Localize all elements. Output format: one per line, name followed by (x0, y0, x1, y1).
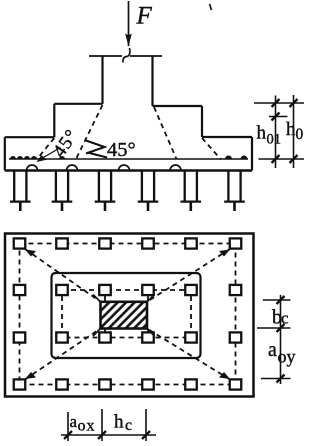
svg-text:a: a (268, 339, 277, 361)
svg-text:45°: 45° (107, 139, 136, 161)
svg-text:c: c (281, 309, 289, 328)
svg-text:c: c (125, 417, 132, 434)
svg-text:h: h (286, 119, 296, 140)
svg-text:oy: oy (278, 347, 296, 367)
svg-text:F: F (136, 3, 153, 30)
svg-text:a: a (70, 412, 78, 431)
svg-text:0: 0 (296, 126, 304, 143)
svg-text:h: h (257, 123, 267, 144)
svg-text:h: h (114, 412, 124, 433)
svg-text:01: 01 (267, 132, 282, 148)
svg-text:ox: ox (78, 418, 96, 435)
